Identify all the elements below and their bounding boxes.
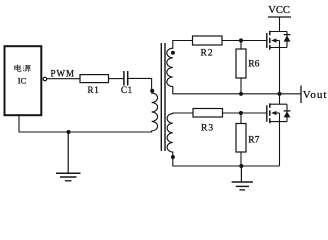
resistor R1 — [80, 75, 109, 83]
source lead Q1 — [270, 47, 287, 49]
node A junction R2/R6/gate — [239, 38, 243, 42]
phase dot secondary bottom — [171, 155, 175, 159]
node B junction R6/rail — [239, 92, 243, 96]
secondary winding bottom L3 with lead to R3 and bottom ground rail — [167, 113, 279, 166]
svg-text:C1: C1 — [121, 85, 133, 95]
junction ground tap on primary return wire — [67, 130, 71, 134]
resistor R3 — [193, 109, 223, 118]
svg-text:R7: R7 — [248, 135, 259, 145]
wire R7 bottom lead — [240, 152, 242, 166]
body arrow Q2 — [271, 111, 276, 115]
phase dot primary — [150, 89, 154, 93]
wire R1 to C1 — [109, 78, 124, 80]
wire PWM pin to R1 — [47, 78, 80, 80]
wire R2 to gate of Q1 — [222, 40, 267, 42]
wire source Q1 to output rail — [279, 48, 281, 94]
node D junction R7/ground rail — [239, 164, 243, 168]
resistor R2 — [193, 36, 223, 45]
svg-text:R3: R3 — [201, 124, 214, 134]
node C junction R3/R7/gate — [239, 111, 243, 115]
gate bar Q1 — [266, 33, 268, 48]
ground symbol right — [232, 166, 253, 190]
wire C1 to transformer primary, primary winding L1, wire to IC bottom pin — [19, 78, 158, 132]
body-source tie Q1 — [279, 41, 281, 48]
wire R7 top lead — [240, 113, 242, 124]
ground symbol left — [56, 132, 81, 181]
svg-text:VCC: VCC — [268, 5, 290, 16]
svg-text:R2: R2 — [201, 48, 214, 58]
transformer core — [160, 43, 162, 151]
junction Q1 source / Q2 drain on rail — [277, 92, 281, 96]
resistor R7 — [236, 124, 246, 153]
channel bar Q2 — [269, 103, 271, 123]
phase dot secondary top — [171, 51, 175, 55]
MOSFET Q1 (top) — [267, 31, 291, 50]
power IC box U1 (电源 IC) — [5, 46, 42, 115]
body diode Q2 — [286, 104, 288, 121]
svg-text:IC: IC — [18, 76, 27, 86]
body arrow Q1 — [271, 38, 276, 42]
MOSFET Q2 (bottom) — [267, 103, 291, 123]
svg-text:R1: R1 — [88, 85, 100, 95]
wire source Q2 to ground rail — [279, 122, 281, 166]
source lead Q2 — [270, 121, 287, 123]
drain lead Q1 — [270, 31, 287, 33]
svg-text:R6: R6 — [248, 60, 259, 70]
secondary winding top L2 with lead to R2 and bottom rail to Vout — [167, 41, 301, 94]
pin circle PWM output — [43, 77, 47, 81]
terminal Vout — [300, 86, 302, 104]
body diode Q1 — [286, 32, 288, 48]
VCC rail — [268, 16, 291, 18]
wire R6 top lead — [240, 41, 242, 50]
svg-text:PWM: PWM — [51, 69, 76, 79]
resistor R6 — [236, 49, 246, 78]
wire R3 to gate of Q2 — [223, 112, 267, 114]
svg-text:Vout: Vout — [303, 89, 328, 101]
drain lead Q2 — [270, 103, 287, 105]
body-source tie Q2 — [279, 113, 281, 122]
channel bar Q1 — [269, 31, 271, 50]
capacitor C1 — [123, 71, 125, 86]
label 源 (yuan) — [23, 65, 31, 72]
wire drain Q1 to VCC — [279, 17, 281, 32]
gate bar Q2 — [266, 105, 268, 122]
label 电 (dian) — [15, 65, 21, 72]
wire drain Q2 to output rail — [279, 94, 281, 104]
wire R6 bottom lead — [240, 78, 242, 94]
